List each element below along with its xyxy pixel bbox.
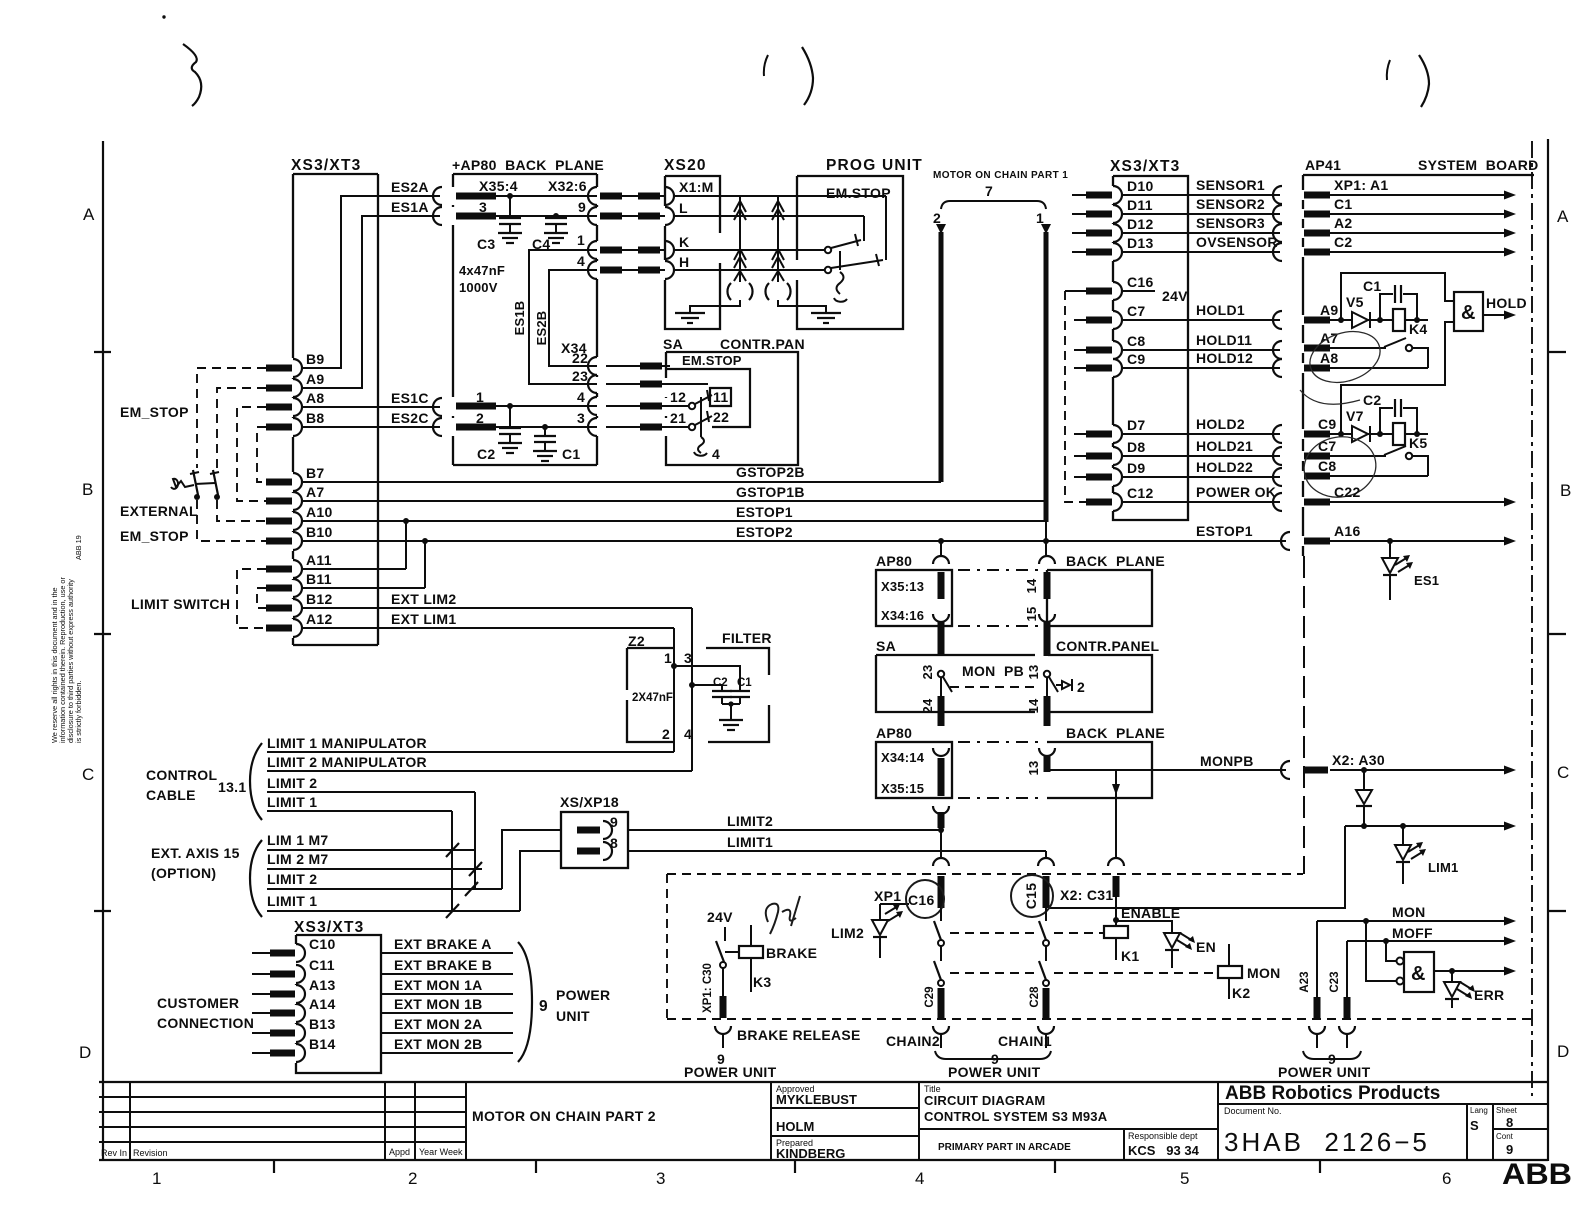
svg-text:B11: B11 <box>306 571 332 587</box>
wire to filter cap C2 <box>692 685 722 690</box>
node filter tap <box>689 682 695 688</box>
svg-text:C2: C2 <box>1334 234 1353 250</box>
svg-text:CABLE: CABLE <box>146 787 196 803</box>
wire ES2C row inside <box>496 426 597 428</box>
svg-text:EXT BRAKE B: EXT BRAKE B <box>394 957 492 973</box>
svg-text:D11: D11 <box>1127 197 1153 213</box>
net EXT LIM2 <box>302 607 692 609</box>
wire C23 column <box>1346 941 1348 997</box>
pin brake release <box>715 1026 731 1034</box>
svg-text:Cont: Cont <box>1496 1132 1514 1141</box>
svg-text:ES1: ES1 <box>1414 573 1439 588</box>
svg-text:K3: K3 <box>753 974 772 990</box>
lower rail to gate <box>1341 322 1454 434</box>
switch actuator link <box>171 479 194 489</box>
wire AP80 to XS20 row1 <box>606 195 665 197</box>
wire 3 row <box>496 215 597 217</box>
pin C1 with arrow <box>1304 211 1330 218</box>
MOTOR ON CHAIN PART 1 bracket <box>933 170 1068 226</box>
pin C8 (AP41) <box>1304 473 1330 480</box>
svg-text:ES2B: ES2B <box>534 311 549 346</box>
svg-text:CIRCUIT DIAGRAM: CIRCUIT DIAGRAM <box>924 1093 1045 1108</box>
svg-text:C3: C3 <box>477 236 496 252</box>
dashed loop A9-A10 <box>217 388 266 468</box>
wire AP80 to XS20 row4 <box>606 269 665 271</box>
pin D12 <box>1113 224 1122 242</box>
pin XP1:A1 with arrow <box>1304 192 1330 199</box>
svg-text:B14: B14 <box>309 1036 336 1052</box>
pin X35:13 pass-through <box>933 556 949 564</box>
svg-text:C9: C9 <box>1318 416 1337 432</box>
pin D9 <box>1113 468 1122 486</box>
svg-text:ERR: ERR <box>1474 987 1504 1003</box>
chain line 2 <box>936 224 946 234</box>
svg-text:3: 3 <box>684 650 692 666</box>
svg-text:A9: A9 <box>1320 302 1339 318</box>
LIM1 rail with arrow <box>1345 825 1508 827</box>
pin C11 <box>296 965 305 983</box>
svg-text:MON: MON <box>1247 965 1281 981</box>
svg-text:4: 4 <box>684 726 692 742</box>
net POWER OK <box>1122 501 1280 503</box>
svg-text:is strictly forbidden.: is strictly forbidden. <box>74 681 83 743</box>
svg-text:ES1A: ES1A <box>391 199 429 215</box>
svg-text:1: 1 <box>476 389 484 405</box>
CONTR.PANEL box <box>1048 638 1160 712</box>
dashed loop B11-B12 <box>257 588 266 608</box>
svg-text:7: 7 <box>985 183 993 199</box>
svg-text:A11: A11 <box>306 552 332 568</box>
wire ES2B loop <box>549 270 597 366</box>
svg-text:EM_STOP: EM_STOP <box>120 528 189 544</box>
svg-text:1: 1 <box>664 650 672 666</box>
pin A2 with arrow <box>1304 230 1330 237</box>
svg-text:11: 11 <box>713 389 728 405</box>
right dash-dot boundary <box>1531 141 1533 1096</box>
svg-text:C: C <box>1557 763 1569 782</box>
pin B11 <box>293 579 302 597</box>
small box around 11 <box>710 388 731 406</box>
svg-text:9: 9 <box>1506 1142 1513 1157</box>
svg-text:XP1: C30: XP1: C30 <box>702 963 714 1013</box>
pin A9 <box>1304 317 1330 324</box>
pin A13 <box>296 985 305 1003</box>
AP80 BACK PLANE box (top) <box>452 157 604 465</box>
SA box (middle) <box>876 638 1035 712</box>
svg-text:22: 22 <box>713 409 729 425</box>
LED ES1 <box>1389 541 1391 557</box>
pin B8 <box>293 418 302 436</box>
svg-text:4x47nF: 4x47nF <box>459 263 505 278</box>
svg-text:13.1: 13.1 <box>218 779 246 795</box>
svg-text:D8: D8 <box>1127 439 1146 455</box>
svg-text:XP1: XP1 <box>874 888 901 904</box>
pin C7 <box>1113 311 1122 329</box>
svg-text:X35:15: X35:15 <box>881 781 924 796</box>
pin A7 <box>1304 345 1330 352</box>
connector XS20 <box>664 157 720 329</box>
handwritten cpv mark <box>766 896 800 934</box>
svg-text:4: 4 <box>577 253 585 269</box>
svg-text:XS3/XT3: XS3/XT3 <box>294 919 364 936</box>
wire LIMIT1 down to chain2 contact <box>1045 851 1047 858</box>
connector XS3/XT3 (right) <box>1110 158 1188 520</box>
svg-text:LIMIT 1 MANIPULATOR: LIMIT 1 MANIPULATOR <box>267 735 427 751</box>
ground (filter) <box>722 704 740 719</box>
pin D7 <box>1113 425 1122 443</box>
svg-text:BACK PLANE: BACK PLANE <box>1066 553 1165 569</box>
svg-text:8: 8 <box>610 835 618 851</box>
wire 23 to SA <box>606 383 708 385</box>
wire ES1C row inside <box>496 405 597 407</box>
svg-text:ESTOP2: ESTOP2 <box>736 524 793 540</box>
svg-text:5: 5 <box>1180 1169 1189 1188</box>
pin A10 <box>293 512 302 530</box>
pin C23 <box>1339 1026 1355 1034</box>
svg-text:B7: B7 <box>306 465 325 481</box>
pin D10 <box>1113 186 1122 204</box>
wire ext limit2 to XS/XP18 pin 9 <box>502 830 561 889</box>
hand-drawn circle around C7/C8 <box>1299 431 1380 503</box>
pin X34:14 pass-through <box>933 748 949 756</box>
svg-text:&: & <box>1411 963 1425 985</box>
wire A9 row <box>1330 319 1352 321</box>
svg-text:SENSOR3: SENSOR3 <box>1196 215 1265 231</box>
svg-text:L: L <box>679 200 688 216</box>
pin K <box>665 241 674 259</box>
svg-text:24V: 24V <box>1162 288 1188 304</box>
pin B13 <box>296 1024 305 1042</box>
dashed loop A11-A12 <box>237 569 266 628</box>
gate & (HOLD) <box>1454 292 1483 331</box>
svg-text:C7: C7 <box>1318 438 1337 454</box>
svg-text:Document No.: Document No. <box>1224 1106 1282 1116</box>
svg-text:Rev In: Rev In <box>101 1148 127 1158</box>
svg-text:HOLD2: HOLD2 <box>1196 416 1245 432</box>
svg-text:K4: K4 <box>1409 321 1428 337</box>
svg-text:&: & <box>1461 302 1475 324</box>
svg-text:EN: EN <box>1196 939 1216 955</box>
svg-text:C16: C16 <box>1127 274 1154 290</box>
svg-text:X1:M: X1:M <box>679 179 714 195</box>
diode (X2:A30 to LIM1 rail) <box>1363 770 1365 789</box>
pin 9 <box>577 827 600 834</box>
svg-text:13: 13 <box>1026 665 1041 680</box>
svg-text:LIMIT 2: LIMIT 2 <box>267 775 317 791</box>
svg-text:MYKLEBUST: MYKLEBUST <box>776 1092 857 1107</box>
svg-text:X2: C31: X2: C31 <box>1060 887 1113 903</box>
PROG UNIT box <box>797 157 923 329</box>
dashed 24V bracket <box>1065 291 1086 502</box>
pin 8 <box>577 848 600 855</box>
svg-text:9: 9 <box>539 998 549 1015</box>
BACK PLANE box (middle lower) <box>1047 725 1165 798</box>
svg-text:B: B <box>1560 481 1571 500</box>
svg-text:FILTER: FILTER <box>722 630 772 646</box>
capacitor C4 <box>553 213 559 219</box>
svg-text:Lang: Lang <box>1470 1106 1488 1115</box>
SA CONTR.PAN box <box>663 336 805 465</box>
svg-text:HOLD: HOLD <box>1486 295 1527 311</box>
wire limit2 cc to lim2 m7 <box>474 792 476 889</box>
net HOLD22 <box>1122 476 1280 478</box>
net HOLD21 <box>1122 455 1280 457</box>
pin C16 24V <box>1113 282 1122 300</box>
svg-text:+AP80 BACK PLANE: +AP80 BACK PLANE <box>452 157 604 173</box>
pin 3 <box>456 213 496 220</box>
svg-text:D7: D7 <box>1127 417 1146 433</box>
svg-text:24V: 24V <box>707 909 733 925</box>
pin X35:4 <box>456 193 496 200</box>
svg-text:A10: A10 <box>306 504 333 520</box>
bracket 9 POWER UNIT <box>518 942 532 1062</box>
wire B10 to B11 <box>424 541 426 588</box>
wire 3 to SA switch 21 <box>606 426 688 428</box>
svg-text:24: 24 <box>920 698 935 713</box>
LED LIM1 <box>1402 826 1404 844</box>
net MONPB inside backplane <box>1047 769 1286 771</box>
svg-text:C2: C2 <box>1363 392 1382 408</box>
prog unit switch H <box>825 267 831 273</box>
hand circle C16 <box>906 880 944 918</box>
svg-text:B12: B12 <box>306 591 333 607</box>
svg-text:6: 6 <box>1442 1169 1451 1188</box>
svg-text:MOTOR ON CHAIN PART 2: MOTOR ON CHAIN PART 2 <box>472 1108 656 1124</box>
dash joint AP80/BACKPLANE row1 <box>958 569 1042 571</box>
svg-text:A9: A9 <box>306 371 325 387</box>
svg-text:CUSTOMER: CUSTOMER <box>157 995 239 1011</box>
junction slashes <box>446 843 459 857</box>
switch link and spring <box>839 251 841 270</box>
X2:C31 feed to K1 <box>1108 858 1124 866</box>
dashed loop A8-A7 <box>237 407 266 501</box>
pin 14/15 pass-through <box>1039 556 1055 564</box>
wire 22 to SA <box>606 365 670 367</box>
svg-text:AP80: AP80 <box>876 725 912 741</box>
scan dot <box>162 15 165 18</box>
wire LIMIT2 down to chain1 contact <box>940 830 942 858</box>
svg-text:SYSTEM BOARD: SYSTEM BOARD <box>1418 157 1539 173</box>
svg-text:ABB: ABB <box>1502 1158 1572 1191</box>
top rail to gate <box>1341 273 1454 320</box>
svg-text:C8: C8 <box>1318 458 1337 474</box>
pin C2 with arrow <box>1304 249 1330 256</box>
svg-text:UNIT: UNIT <box>556 1008 590 1024</box>
svg-text:BACK PLANE: BACK PLANE <box>1066 725 1165 741</box>
svg-text:1: 1 <box>152 1169 161 1188</box>
pin B10 <box>293 532 302 550</box>
svg-text:ES2A: ES2A <box>391 179 429 195</box>
svg-text:XS3/XT3: XS3/XT3 <box>291 157 361 174</box>
svg-text:LIMIT 1: LIMIT 1 <box>267 794 317 810</box>
svg-text:LIMIT 2 MANIPULATOR: LIMIT 2 MANIPULATOR <box>267 754 427 770</box>
svg-text:LIM 2 M7: LIM 2 M7 <box>267 851 329 867</box>
svg-text:C22: C22 <box>1334 484 1361 500</box>
pin C9 <box>1304 431 1330 438</box>
pin 2 (lower-left) <box>456 424 496 431</box>
svg-text:1: 1 <box>577 232 585 248</box>
svg-text:C8: C8 <box>1127 333 1146 349</box>
svg-text:D13: D13 <box>1127 235 1154 251</box>
svg-text:LIMIT2: LIMIT2 <box>727 813 773 829</box>
svg-text:EXT MON 2A: EXT MON 2A <box>394 1016 483 1032</box>
svg-text:Revision: Revision <box>133 1148 168 1158</box>
wire ext limit1 to XS/XP18 pin 8 <box>520 851 561 911</box>
svg-text:KINDBERG: KINDBERG <box>776 1146 845 1161</box>
svg-text:CONTR.PAN: CONTR.PAN <box>720 336 805 352</box>
svg-text:EXT BRAKE A: EXT BRAKE A <box>394 936 492 952</box>
svg-text:HOLM: HOLM <box>776 1119 814 1134</box>
svg-text:2: 2 <box>933 210 941 226</box>
svg-text:SA: SA <box>663 336 683 352</box>
pin X1:M <box>665 187 674 205</box>
svg-text:K2: K2 <box>1232 985 1251 1001</box>
svg-text:15: 15 <box>1024 607 1039 622</box>
svg-text:C1: C1 <box>737 677 752 689</box>
node Z2 pin1 junction <box>671 663 677 669</box>
pin C10 <box>296 944 305 962</box>
ground (lamp 2) <box>778 300 826 312</box>
svg-text:K1: K1 <box>1121 948 1140 964</box>
svg-text:EXT MON 1A: EXT MON 1A <box>394 977 483 993</box>
pin A11 <box>293 560 302 578</box>
POWER UNIT dashed enclosure <box>667 873 1303 875</box>
svg-text:(OPTION): (OPTION) <box>151 865 216 881</box>
svg-text:2: 2 <box>1077 679 1085 695</box>
sheet column ticks <box>273 1160 275 1173</box>
relay coil K4 <box>1393 309 1405 331</box>
net EXT LIM1 <box>302 627 674 629</box>
svg-text:X2: A30: X2: A30 <box>1332 752 1385 768</box>
lamp column 2 <box>777 196 779 282</box>
svg-text:K5: K5 <box>1409 435 1428 451</box>
svg-text:KCS 93 34: KCS 93 34 <box>1128 1143 1200 1158</box>
svg-text:H: H <box>679 254 689 270</box>
svg-text:LIMIT 1: LIMIT 1 <box>267 893 317 909</box>
pin 1 (lower-left) <box>456 403 496 410</box>
svg-text:V7: V7 <box>1346 408 1364 424</box>
svg-text:A: A <box>1557 207 1569 226</box>
svg-text:XS3/XT3: XS3/XT3 <box>1110 158 1180 175</box>
svg-text:PROG UNIT: PROG UNIT <box>826 157 923 174</box>
svg-text:4: 4 <box>915 1169 924 1188</box>
svg-text:LIMIT1: LIMIT1 <box>727 834 773 850</box>
svg-text:14: 14 <box>1024 578 1039 593</box>
scan squiggle top-left <box>183 44 201 106</box>
svg-text:POWER UNIT: POWER UNIT <box>1278 1064 1371 1080</box>
svg-text:3: 3 <box>577 410 585 426</box>
wire A10 to A11 <box>405 521 407 569</box>
svg-text:LIMIT 2: LIMIT 2 <box>267 871 317 887</box>
svg-text:CHAIN1: CHAIN1 <box>998 1033 1052 1049</box>
pin C8 <box>1113 341 1122 359</box>
svg-text:EM.STOP: EM.STOP <box>826 185 891 201</box>
svg-text:B10: B10 <box>306 524 333 540</box>
pin A8 <box>293 398 302 416</box>
svg-text:MOTOR ON CHAIN PART 1: MOTOR ON CHAIN PART 1 <box>933 170 1068 181</box>
svg-text:POWER: POWER <box>556 987 610 1003</box>
svg-text:A8: A8 <box>1320 350 1339 366</box>
dashed contact row 1 <box>950 932 1036 934</box>
svg-text:B9: B9 <box>306 351 325 367</box>
pin L <box>665 207 674 225</box>
pin D8 <box>1113 447 1122 465</box>
relay coil K2 MON <box>1218 966 1242 978</box>
svg-text:C28: C28 <box>1029 986 1041 1008</box>
pin D13 <box>1113 243 1122 261</box>
net OVSENSOR <box>1122 251 1280 253</box>
svg-text:CONNECTION: CONNECTION <box>157 1015 254 1031</box>
svg-text:C1: C1 <box>1334 196 1353 212</box>
svg-text:PRIMARY PART IN ARCADE: PRIMARY PART IN ARCADE <box>938 1142 1071 1153</box>
svg-text:B: B <box>82 480 93 499</box>
net HOLD2 <box>1122 433 1280 435</box>
svg-text:C11: C11 <box>309 957 335 973</box>
svg-text:X34:16: X34:16 <box>881 608 924 623</box>
svg-text:4: 4 <box>712 446 720 462</box>
svg-text:CONTR.PANEL: CONTR.PANEL <box>1056 638 1160 654</box>
svg-text:8: 8 <box>1506 1115 1513 1130</box>
svg-text:ESTOP1: ESTOP1 <box>736 504 793 520</box>
FILTER box <box>706 630 772 742</box>
wire ES2A <box>302 196 440 368</box>
pin A12 <box>293 619 302 637</box>
right zone ticks <box>1548 351 1566 353</box>
svg-text:POWER OK: POWER OK <box>1196 484 1276 500</box>
svg-text:EXT LIM2: EXT LIM2 <box>391 591 456 607</box>
svg-text:EXT LIM1: EXT LIM1 <box>391 611 456 627</box>
chain line 1 <box>1041 224 1051 234</box>
BACK PLANE box (middle upper) <box>1047 553 1165 626</box>
pin C7 (AP41) <box>1304 453 1330 460</box>
pin A23 <box>1309 1026 1325 1034</box>
svg-text:C12: C12 <box>1127 485 1154 501</box>
svg-text:EXTERNAL: EXTERNAL <box>120 503 198 519</box>
svg-text:A8: A8 <box>306 390 325 406</box>
right border <box>1547 139 1549 1161</box>
svg-text:13: 13 <box>1026 761 1041 776</box>
svg-text:C23: C23 <box>1329 971 1341 992</box>
svg-text:MONPB: MONPB <box>1200 753 1254 769</box>
svg-text:A2: A2 <box>1334 215 1353 231</box>
net HOLD1 <box>1122 319 1280 321</box>
pushbutton symbol 2 <box>1056 679 1072 691</box>
net SENSOR1 <box>1122 194 1280 196</box>
svg-text:EM_STOP: EM_STOP <box>120 404 189 420</box>
pin C9 <box>1113 359 1122 377</box>
wire A23 column <box>1316 921 1318 997</box>
wire L row <box>674 215 864 217</box>
svg-text:LIM2: LIM2 <box>831 925 864 941</box>
net ESTOP2 <box>302 540 1286 542</box>
svg-text:3HAB 2126−5: 3HAB 2126−5 <box>1224 1127 1430 1157</box>
pin D11 <box>1113 205 1122 223</box>
pin C22 with arrow <box>1304 499 1330 506</box>
svg-text:D: D <box>1557 1042 1569 1061</box>
svg-text:21: 21 <box>670 410 686 426</box>
svg-text:X34:14: X34:14 <box>881 750 925 765</box>
svg-text:A23: A23 <box>1299 971 1311 992</box>
svg-text:HOLD11: HOLD11 <box>1196 332 1252 348</box>
switch K5 contact <box>1330 455 1386 457</box>
bracket 9 power unit (A23/C23) <box>1303 1051 1361 1059</box>
svg-text:ES2C: ES2C <box>391 410 429 426</box>
gate inputs <box>1366 921 1397 981</box>
connector XS3/XT3 (customer) <box>294 919 381 1073</box>
svg-text:2X47nF: 2X47nF <box>632 692 673 704</box>
net SENSOR2 <box>1122 213 1280 215</box>
svg-text:23: 23 <box>920 665 935 680</box>
